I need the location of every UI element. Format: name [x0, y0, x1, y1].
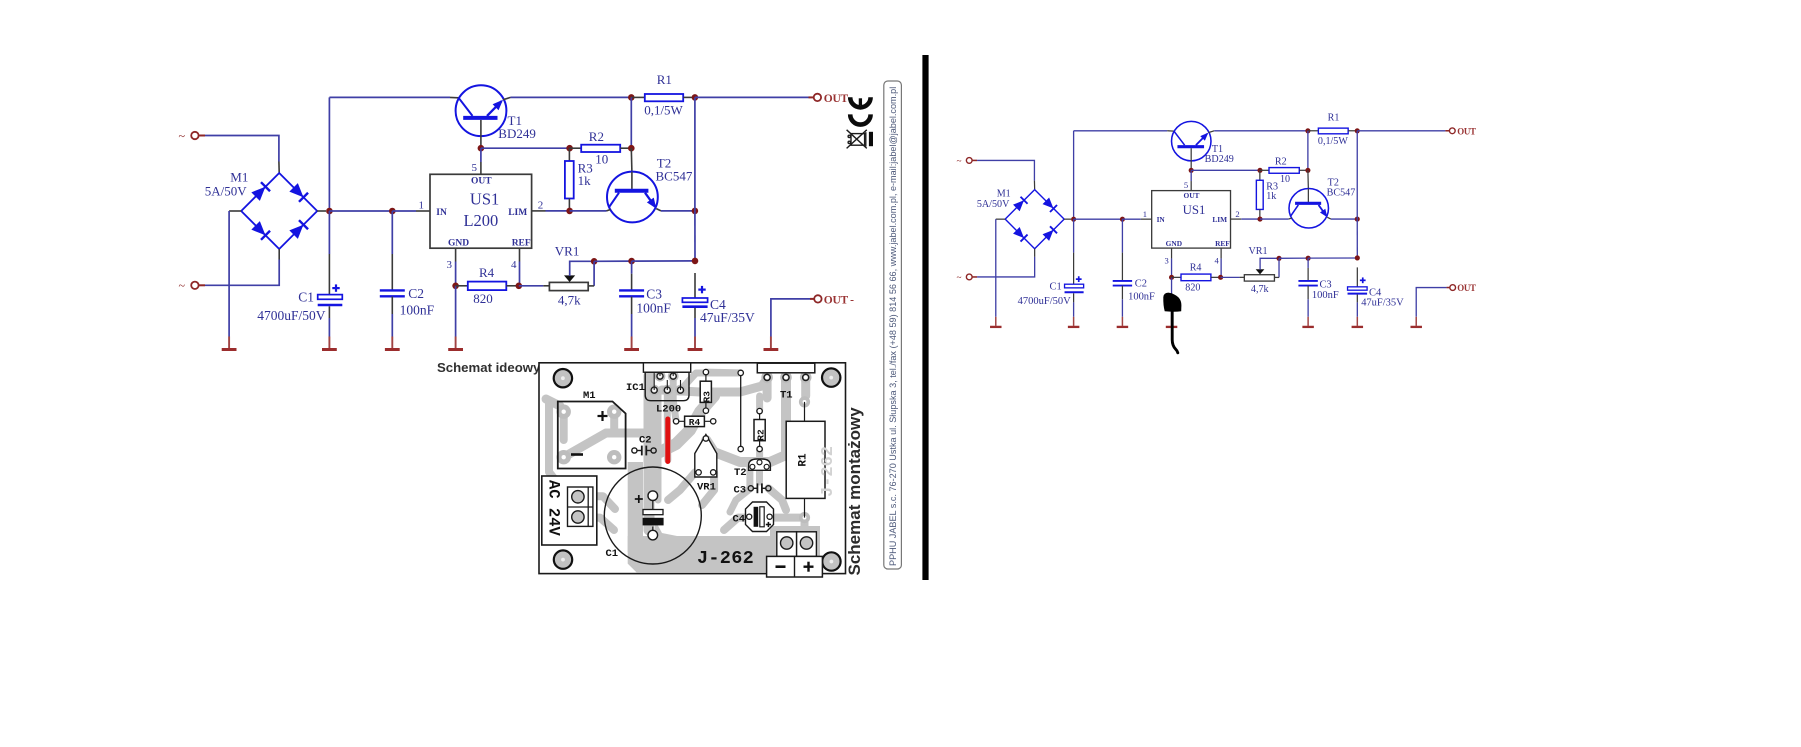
(right copy) R2 lead left [1260, 169, 1269, 171]
resistor R4 body [468, 282, 507, 291]
svg-text:1: 1 [1143, 209, 1147, 219]
(right copy) ground (C3) [1307, 317, 1309, 326]
ground (C3) [631, 337, 633, 349]
(right copy) node T1 base / US1 pin5 [1189, 168, 1194, 173]
(right copy) R1 lead right [1348, 130, 1357, 132]
svg-text:0,1/5W: 0,1/5W [644, 103, 683, 118]
(right copy) US1 pin 5 lead [1190, 181, 1192, 191]
svg-text:US1: US1 [1183, 203, 1206, 217]
svg-text:R4: R4 [479, 265, 495, 280]
T1 collector diagonal [459, 98, 473, 116]
(right copy) diode M1 lower-right [1043, 231, 1052, 240]
T1 emitter arrow [493, 100, 503, 110]
(right copy) R4 lead left [1172, 276, 1181, 278]
svg-text:OUT: OUT [1183, 191, 1199, 200]
R4 lead left [456, 285, 468, 287]
svg-text:820: 820 [473, 291, 493, 306]
(right copy) node C3 top [1306, 256, 1311, 261]
(right copy) top rail middle segment [1214, 130, 1308, 132]
(right copy) node R2 right / T2 base [1305, 168, 1310, 173]
(right copy) bridge rectifier M1 diamond [1005, 190, 1064, 249]
T2 left lead [607, 210, 611, 211]
wire to US1 IN [392, 210, 416, 212]
(right copy) ground (bridge minus) [995, 317, 997, 326]
svg-text:100nF: 100nF [1312, 290, 1339, 301]
svg-text:C1: C1 [606, 548, 619, 560]
wire C3 from node [631, 261, 633, 274]
WEEE black bar [869, 132, 873, 146]
resistor R1 body [645, 94, 683, 101]
svg-text:BD249: BD249 [498, 126, 536, 141]
svg-text:AC 24V: AC 24V [545, 480, 563, 537]
(right copy) R3 lead bottom [1259, 209, 1261, 219]
svg-text:1k: 1k [578, 173, 592, 188]
(right copy) C2 lead bottom [1121, 286, 1123, 300]
(right copy) US1 pin 1 lead [1141, 218, 1152, 220]
(right copy) wire pin3 down to R4 node [1171, 258, 1173, 277]
bridge pin lead left [229, 210, 241, 212]
(right copy) wire AC2 to bridge bottom [977, 257, 1035, 277]
wire node to T2 left [570, 210, 607, 212]
(right copy) diode M1 upper-right [1043, 198, 1052, 207]
terminal AC input 2 (~) [191, 282, 198, 289]
(right copy) node bridge output [1071, 217, 1076, 222]
ground (US1 GND) [455, 337, 457, 349]
(right copy) terminal OUT+ [1449, 128, 1455, 134]
svg-text:~: ~ [179, 279, 186, 293]
(right copy) wire C1 from node [1073, 219, 1075, 252]
T1 emitter lead to rail [503, 97, 511, 99]
(right copy) wire base node to R2/R3 node [1191, 169, 1260, 171]
svg-text:C1: C1 [1049, 282, 1061, 293]
T2 bar lead inside [631, 172, 633, 189]
R2 lead left [570, 147, 582, 149]
C4 lead bottom [694, 308, 696, 318]
svg-text:C4: C4 [733, 514, 746, 526]
svg-text:820: 820 [1185, 283, 1200, 294]
M1 plus marking [598, 411, 608, 421]
(right copy) C2 lead top [1121, 253, 1123, 281]
svg-text:C3: C3 [646, 287, 662, 302]
T2 emitter diagonal [645, 193, 655, 206]
svg-text:0,1/5W: 0,1/5W [1318, 136, 1348, 147]
(right copy) T2 base bar [1295, 202, 1321, 205]
C1 lead bottom [328, 306, 330, 318]
(right copy) wire pin4 down to R4 right node [1220, 258, 1222, 277]
C2 lead bottom [391, 297, 393, 315]
svg-text:100nF: 100nF [636, 301, 671, 316]
svg-text:IN: IN [436, 208, 447, 218]
(right copy) C1 lead top [1073, 253, 1075, 285]
(right copy) ground (C4) [1356, 317, 1358, 326]
svg-text:100nF: 100nF [400, 303, 435, 318]
C2 lead top [391, 254, 393, 290]
wire bridge left corner to ground [228, 211, 230, 337]
(right copy) wire R1 to OUT+ [1357, 130, 1445, 132]
(right copy) terminal AC input 2 (~) [966, 274, 972, 280]
svg-text:4700uF/50V: 4700uF/50V [1018, 296, 1071, 307]
(right copy) T2 top lead [1307, 170, 1309, 188]
svg-text:BC547: BC547 [1327, 188, 1356, 199]
US1 pin 5 lead [480, 162, 482, 174]
top rail left segment [329, 96, 450, 98]
wire C4 to ground [694, 318, 696, 337]
PCB component M1 (bridge) outline [558, 402, 626, 469]
bridge pin lead bottom [278, 249, 280, 260]
WEEE crossed-out bin symbol (rotated) [847, 130, 867, 149]
svg-text:J-262: J-262 [697, 548, 754, 569]
(right copy) capacitor C3 plates [1298, 280, 1317, 282]
svg-text:4,7k: 4,7k [1251, 284, 1270, 295]
(right copy) US1 pin 2 lead [1231, 218, 1242, 220]
diode M1 lower-right [290, 226, 302, 238]
svg-text:LIM: LIM [508, 208, 527, 218]
capacitor C3 plates [619, 289, 644, 291]
ground (bridge minus) [228, 337, 230, 349]
svg-text:BD249: BD249 [1205, 154, 1234, 165]
R3 lead bottom [568, 199, 570, 211]
svg-text:100nF: 100nF [1128, 292, 1155, 303]
svg-text:~: ~ [179, 129, 186, 143]
PCB mounting holes [554, 369, 572, 387]
svg-text:10: 10 [1280, 174, 1290, 185]
C3 lead bottom [631, 297, 633, 315]
PCB component R2 [759, 411, 761, 449]
capacitor C2 plates [380, 289, 405, 291]
svg-text:M1: M1 [230, 170, 248, 185]
svg-text:L200: L200 [656, 404, 681, 416]
output plus marking [804, 562, 814, 572]
US1 pin 3 lead [455, 248, 457, 261]
OUT+ terminal stub [809, 96, 814, 98]
(right copy) wire C3 from node [1307, 258, 1309, 268]
(right copy) diode M1 lower-left [1014, 228, 1023, 237]
(right copy) wire C3 node to C4 node [1308, 257, 1357, 259]
svg-text:Schemat ideowy: Schemat ideowy [437, 360, 541, 375]
ground (C2) [391, 337, 393, 349]
wire R1-left node down to R2 node [630, 97, 632, 148]
svg-text:GND: GND [448, 238, 469, 248]
wire C3 node to C4 node [632, 260, 695, 262]
potentiometer VR1 body [549, 282, 588, 290]
(right copy) wire wiper rail to C3 node [1279, 257, 1308, 259]
(right copy) T2 left lead [1289, 218, 1292, 219]
(right copy) wire C4 to ground [1356, 302, 1358, 316]
ground (OUT-) [770, 337, 772, 349]
(right copy) T1 base bar [1177, 145, 1204, 148]
svg-text:M1: M1 [583, 390, 596, 402]
(right copy) T1 collector lead [1167, 130, 1174, 132]
(right copy) wire vertical to C4 rail [1356, 219, 1358, 258]
node R1 right [692, 94, 699, 101]
svg-text:4: 4 [1215, 255, 1220, 265]
svg-text:5: 5 [1184, 180, 1188, 190]
(right copy) VR1 wiper wire [1260, 258, 1279, 269]
svg-text:VR1: VR1 [1249, 246, 1268, 257]
svg-text:T2: T2 [734, 467, 747, 479]
svg-text:5A/50V: 5A/50V [205, 184, 248, 199]
PCB wire link [740, 373, 742, 449]
(right copy) transistor T2 BC547 circle [1289, 189, 1328, 228]
svg-text:R4: R4 [689, 417, 701, 428]
company info strip border [884, 81, 902, 569]
(right copy) T1 emitter arrow [1200, 133, 1208, 141]
(right copy) wire C2 to ground [1121, 299, 1123, 317]
wire base node to R2/R3 node [481, 147, 570, 149]
capacitor C1 top plate [318, 295, 343, 300]
svg-text:IC1: IC1 [626, 382, 645, 394]
svg-text:OUT: OUT [471, 177, 492, 187]
US1 pin 2 lead [532, 210, 546, 212]
PCB component C4 outline [746, 502, 774, 532]
hand-drawn black cursor mark [1163, 293, 1181, 312]
top rail middle segment [511, 96, 632, 98]
(right copy) R4 lead right [1211, 276, 1221, 278]
(right copy) wire US1 pin5 down [1190, 170, 1192, 181]
(right copy) resistor R1 body [1318, 128, 1348, 134]
(right copy) terminal AC input 1 (~) [966, 158, 972, 164]
US1 pin 1 lead [416, 210, 430, 212]
PCB layout board J-262 (Schemat montazowy) [539, 363, 846, 574]
wire AC2 to bridge bottom [205, 260, 279, 286]
(right copy) C3 lead top [1307, 268, 1309, 281]
capacitor C4 plus sign [698, 289, 705, 291]
svg-text:C1: C1 [298, 290, 314, 305]
svg-text:BC547: BC547 [656, 169, 693, 184]
thick vertical divider line [922, 55, 928, 580]
(right copy) terminal OUT- [1450, 285, 1456, 291]
svg-text:3: 3 [1164, 255, 1168, 265]
(right copy) node VR1 wiper [1276, 256, 1281, 261]
T2 emitter arrow [647, 198, 656, 209]
(right copy) wire C3 to ground [1307, 299, 1309, 317]
C4 lead top [694, 273, 696, 298]
ground (C4) [694, 337, 696, 349]
wire C3 to ground [631, 314, 633, 337]
node R2 left / R3 top [566, 145, 573, 152]
svg-text:R3: R3 [702, 391, 713, 403]
svg-text:M1: M1 [997, 188, 1011, 199]
(right copy) resistor R2 body [1269, 168, 1299, 174]
CE mark (rotated) [850, 97, 870, 107]
PCB output connector [777, 532, 797, 557]
wire R4 node to ground [455, 286, 457, 337]
svg-text:R2: R2 [755, 429, 766, 441]
(right copy) node C2 top [1120, 217, 1125, 222]
(right copy) VR1 wiper arrow [1256, 269, 1265, 274]
svg-text:J-262: J-262 [819, 446, 838, 497]
PCB component R1 outline [804, 402, 806, 421]
svg-text:2: 2 [538, 199, 544, 211]
(right copy) T2 emitter arrow [1320, 209, 1327, 218]
svg-text:REF: REF [512, 238, 531, 248]
R1 lead right [683, 96, 695, 98]
(right copy) ground (C2) [1121, 317, 1123, 326]
(right copy) OUT+ terminal stub [1445, 130, 1449, 132]
(right copy) node R1 left [1305, 128, 1310, 133]
node R1 left [628, 94, 635, 101]
VR1 right terminal wire [593, 261, 595, 286]
PCB component T2 outline [749, 459, 771, 470]
(right copy) C3 lead bottom [1307, 286, 1309, 300]
svg-text:R2: R2 [1275, 157, 1287, 168]
(right copy) T1 collector diagonal [1174, 131, 1185, 145]
node bridge output [326, 208, 333, 215]
svg-text:OUT: OUT [1457, 283, 1476, 293]
(right copy) node R1 right [1355, 128, 1360, 133]
svg-text:5A/50V: 5A/50V [977, 199, 1010, 210]
svg-text:4700uF/50V: 4700uF/50V [257, 308, 326, 323]
svg-text:4,7k: 4,7k [558, 293, 581, 308]
(right copy) wire AC1 to bridge top [977, 160, 1034, 180]
(right copy) capacitor C4 bottom plate [1348, 293, 1368, 295]
(right copy) T1 emitter lead to rail [1208, 131, 1214, 133]
(right copy) capacitor C1 plus sign [1076, 278, 1082, 280]
R1 lead left [631, 96, 645, 98]
svg-text:10: 10 [595, 152, 608, 167]
output minus marking [776, 565, 786, 568]
PCB component C1 outline [604, 467, 701, 564]
svg-text:R1: R1 [657, 72, 672, 87]
(right copy) wire OUT- corner [1416, 288, 1446, 317]
svg-text:Schemat montażowy: Schemat montażowy [845, 407, 864, 576]
svg-text:C2: C2 [408, 286, 424, 301]
wire T2 emitter to vertical [661, 210, 695, 212]
node R4 right / REF [516, 283, 523, 290]
(right copy) resistor R4 body [1181, 274, 1211, 281]
T2 top lead [630, 148, 633, 171]
PCB component IC1 (L200) outline [643, 363, 690, 372]
PCB red jumper highlight [665, 419, 670, 462]
PCB component R3 [705, 372, 707, 411]
wire AC1 to bridge top [205, 136, 279, 162]
svg-text:5: 5 [472, 162, 478, 174]
node C3 top [628, 258, 635, 265]
(right copy) R2 lead right [1299, 169, 1308, 171]
(right copy) OUT- terminal stub [1447, 287, 1450, 289]
svg-text:OUT: OUT [824, 93, 849, 105]
terminal AC input 1 (~) [191, 132, 198, 139]
(right copy) node R2 left / R3 top [1257, 168, 1262, 173]
svg-text:1k: 1k [1266, 191, 1277, 202]
svg-text:C2: C2 [639, 435, 652, 447]
(right copy) VR1 right terminal wire [1278, 258, 1280, 277]
wire LIM to R3 node [546, 210, 570, 212]
node T2 emitter / vertical [692, 208, 699, 215]
(right copy) T2 bar lead inside [1307, 189, 1309, 202]
(right copy) bridge pin lead top [1033, 181, 1035, 190]
svg-text:2: 2 [1235, 209, 1239, 219]
(right copy) wire bridge left corner to ground [995, 219, 997, 317]
svg-text:LIM: LIM [1212, 215, 1227, 224]
svg-text:VR1: VR1 [697, 482, 716, 494]
svg-text:R1: R1 [1328, 113, 1340, 124]
wire C1 to ground [328, 318, 330, 337]
transistor T2 BC547 circle [607, 172, 658, 223]
C3 lead top [631, 274, 633, 290]
PCB component T1 outline [757, 363, 815, 373]
(right copy) wire R1-left node down to R2 node [1307, 131, 1309, 171]
svg-text:~: ~ [957, 273, 962, 283]
capacitor C1 plus sign [332, 287, 339, 289]
svg-text:REF: REF [1215, 239, 1230, 248]
VR1 lead right [588, 285, 594, 287]
svg-text:L200: L200 [463, 211, 498, 230]
(right copy) ground (C1) [1073, 317, 1075, 326]
(right copy) wire C2 from node [1121, 219, 1123, 252]
wire pin3 down to R4 node [455, 262, 457, 286]
node C4 top [692, 258, 699, 265]
(right copy) T2 emitter diagonal [1319, 205, 1326, 215]
svg-text:C3: C3 [1319, 279, 1331, 290]
M1 minus marking [571, 453, 583, 456]
bridge pin lead top [278, 162, 280, 173]
(right copy) node R4 right / REF [1218, 275, 1223, 280]
VR1 wiper wire [570, 261, 594, 276]
wire C1 from node [328, 211, 330, 254]
(right copy) wire node to T2 left [1260, 218, 1289, 220]
(right copy) node R3 bottom / LIM [1257, 217, 1262, 222]
node C2 top [389, 208, 396, 215]
(right copy) R1 lead left [1308, 130, 1318, 132]
(right copy) VR1 lead right [1274, 276, 1279, 278]
svg-text:OUT: OUT [1457, 127, 1476, 137]
(right copy) node C4 top [1355, 255, 1360, 260]
node R2 right / T2 base [628, 145, 635, 152]
wire vertical R1-right down [694, 97, 696, 210]
capacitor C4 top plate [682, 298, 707, 302]
(right copy) capacitor C4 top plate [1348, 287, 1368, 290]
(right copy) wire R4 to VR1 [1221, 276, 1240, 278]
(right copy) capacitor C1 top plate [1065, 284, 1084, 288]
(right copy) wire to US1 IN [1122, 218, 1140, 220]
(right copy) bridge pin lead right [1064, 218, 1071, 220]
T1 emitter diagonal [487, 101, 502, 116]
R3 lead top [568, 148, 570, 161]
svg-text:4: 4 [511, 259, 517, 271]
(right copy) wire R4 node to ground [1171, 277, 1173, 316]
wire bridge node to C2 node [329, 210, 392, 212]
svg-text:OUT -: OUT - [824, 295, 854, 307]
(right copy) IC US1 L200 box [1152, 191, 1231, 248]
PCB copper traces [546, 372, 806, 556]
(right copy) C1 lead bottom [1073, 293, 1075, 302]
US1 pin 4 lead [519, 248, 521, 261]
svg-text:R1: R1 [798, 453, 810, 467]
(right copy) capacitor C1 bottom plate [1065, 291, 1084, 293]
cursor mark tail [1172, 312, 1178, 353]
(right copy) wire bridge node to C2 node [1074, 218, 1123, 220]
terminal OUT- [814, 295, 821, 302]
wire C2 from node [391, 211, 393, 254]
diode M1 upper-left [252, 188, 264, 200]
(right copy) diode M1 upper-left [1014, 201, 1023, 210]
svg-text:VR1: VR1 [555, 244, 580, 259]
node R4 left [452, 283, 459, 290]
T2 left diagonal [609, 193, 619, 208]
(right copy) T1 base lead down [1190, 148, 1192, 170]
(right copy) node R4 left [1169, 275, 1174, 280]
wire pin4 down to R4 right node [519, 262, 521, 286]
diode M1 lower-left [252, 222, 264, 234]
PCB ground pour bottom [628, 526, 820, 572]
svg-text:PPHU JABEL s.c. 76-270 Ustka u: PPHU JABEL s.c. 76-270 Ustka ul. Słupska… [888, 87, 898, 566]
wire C2 to ground [391, 314, 393, 337]
(right copy) capacitor C4 plus sign [1360, 279, 1366, 281]
wire US1 pin5 down [480, 148, 482, 162]
T2 emitter lead [656, 209, 661, 211]
(right copy) C4 lead bottom [1356, 295, 1358, 303]
